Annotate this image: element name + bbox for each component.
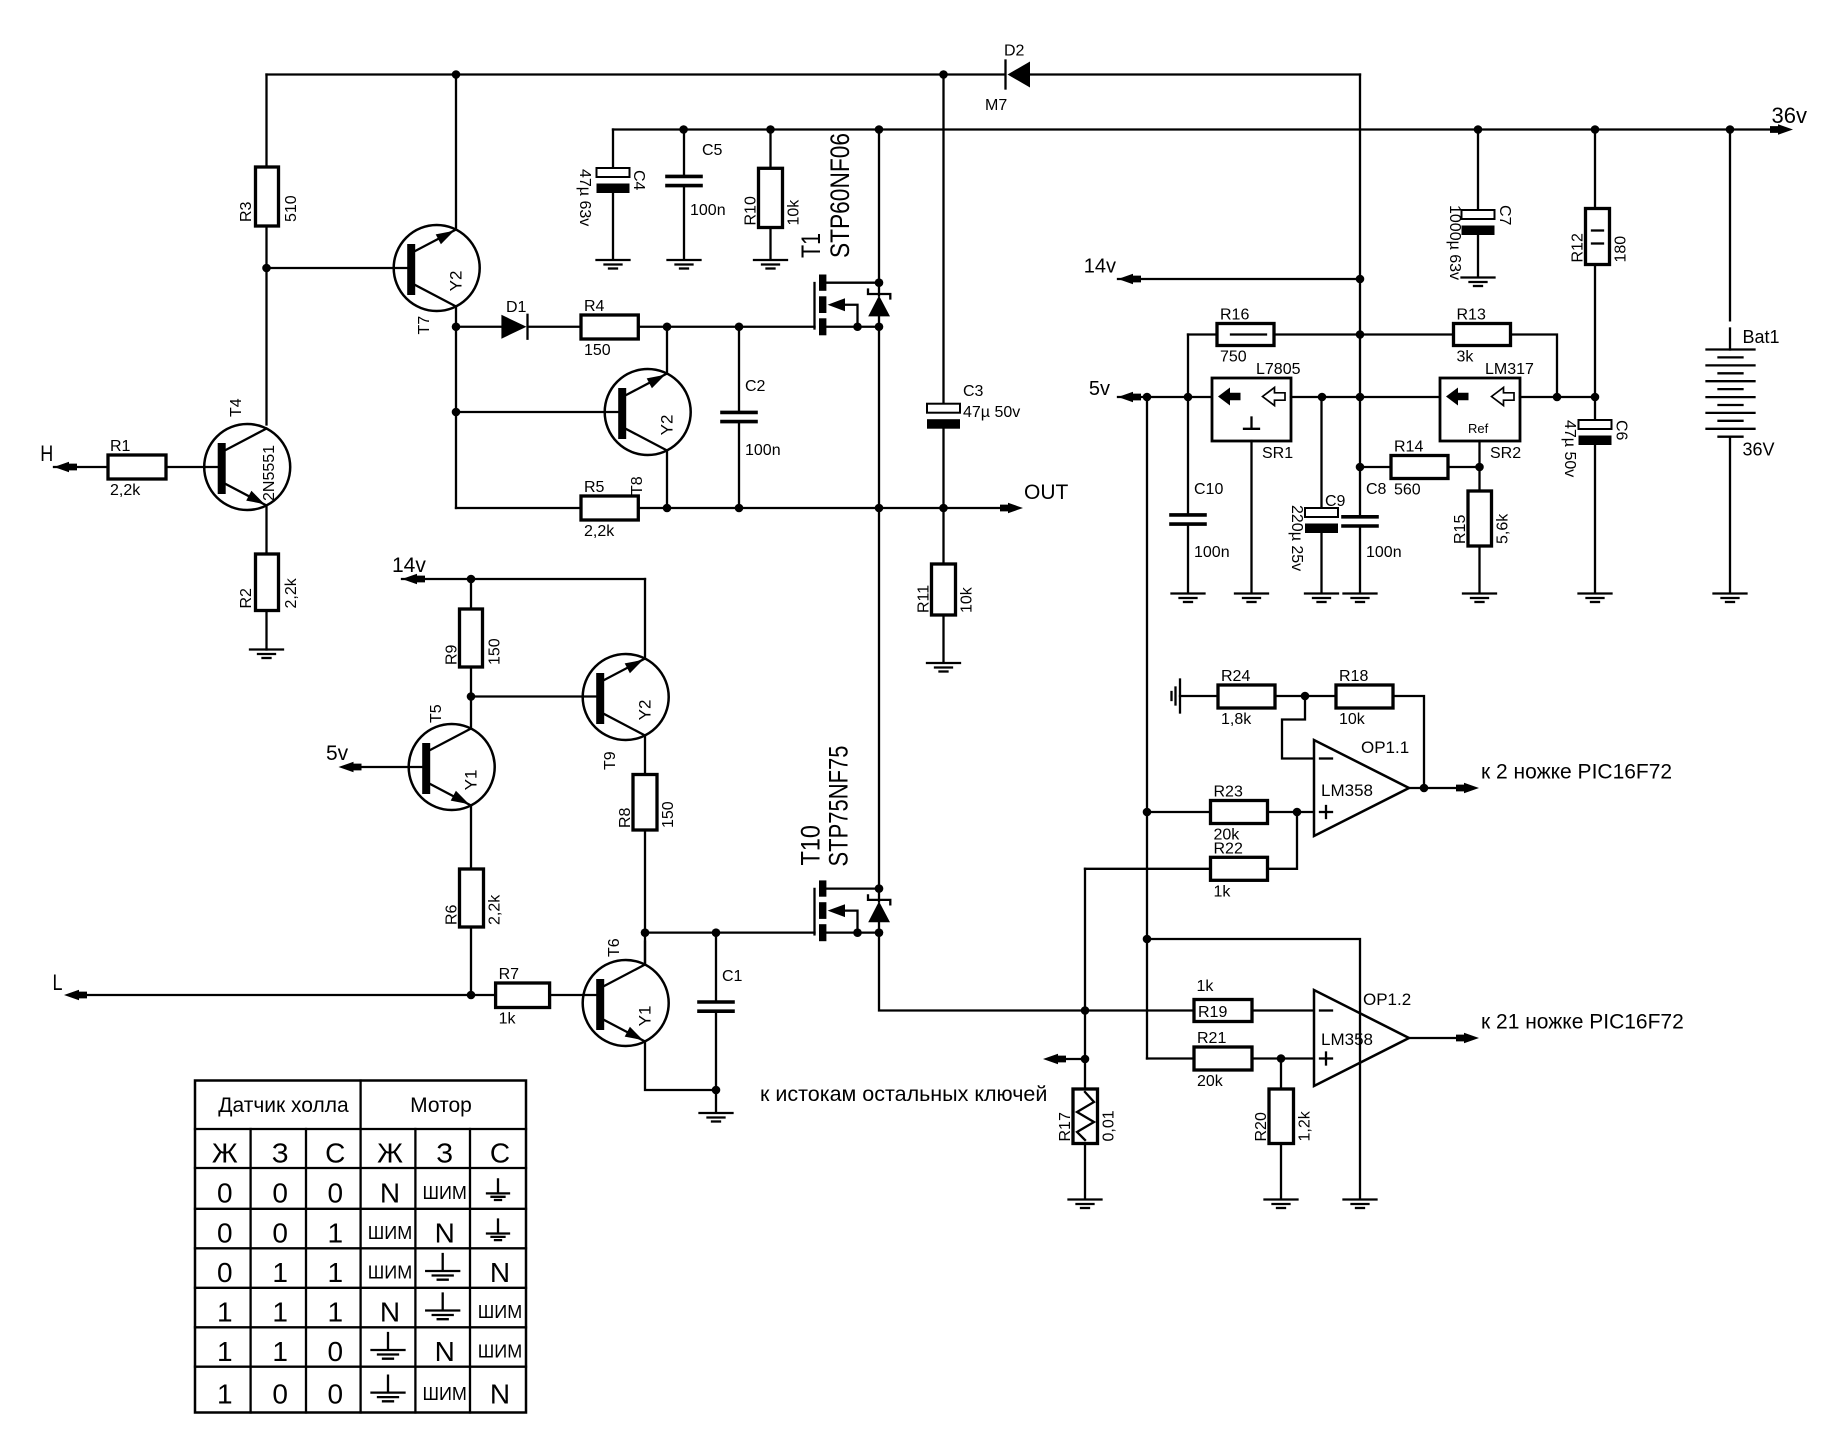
svg-text:T1: T1 [796,233,826,258]
svg-text:T5: T5 [428,704,445,723]
svg-text:220µ 25v: 220µ 25v [1288,505,1305,571]
svg-text:R13: R13 [1457,307,1486,324]
svg-text:1: 1 [217,1336,233,1367]
svg-text:Bat1: Bat1 [1743,327,1780,347]
svg-text:1,2k: 1,2k [1297,1110,1314,1141]
svg-text:L: L [53,970,63,995]
svg-text:N: N [490,1257,510,1288]
svg-text:100n: 100n [1194,544,1230,561]
svg-text:LM358: LM358 [1321,781,1373,800]
svg-text:3k: 3k [1457,349,1475,366]
svg-text:R16: R16 [1220,307,1249,324]
svg-text:R9: R9 [444,644,461,665]
svg-text:1: 1 [328,1218,344,1249]
svg-text:З: З [272,1138,289,1169]
svg-text:R22: R22 [1214,840,1243,857]
svg-text:1k: 1k [499,1011,517,1028]
svg-text:H: H [40,441,53,466]
svg-text:T9: T9 [602,751,619,770]
svg-text:1: 1 [328,1257,344,1288]
svg-text:ШИМ: ШИМ [368,1223,412,1243]
svg-text:0: 0 [328,1177,344,1208]
svg-text:SR2: SR2 [1490,445,1521,462]
svg-text:2,2k: 2,2k [110,482,141,499]
svg-text:R4: R4 [584,298,605,315]
svg-text:T6: T6 [606,938,623,957]
svg-text:5v: 5v [326,742,349,765]
svg-text:R15: R15 [1452,515,1469,544]
svg-text:C1: C1 [722,968,743,985]
svg-text:150: 150 [487,638,504,665]
svg-text:2N5551: 2N5551 [261,445,278,501]
svg-text:R17: R17 [1057,1112,1074,1141]
svg-text:T10: T10 [796,825,826,866]
svg-text:180: 180 [1613,236,1630,263]
svg-text:5,6k: 5,6k [1495,513,1512,544]
svg-text:LM358: LM358 [1321,1030,1373,1049]
svg-text:100n: 100n [1366,544,1402,561]
svg-text:510: 510 [283,195,300,222]
svg-text:1: 1 [272,1336,288,1367]
svg-text:С: С [490,1138,510,1169]
svg-text:0: 0 [217,1177,233,1208]
svg-text:T7: T7 [416,316,433,335]
svg-text:R11: R11 [916,585,933,613]
svg-text:0,01: 0,01 [1101,1110,1118,1141]
svg-text:0: 0 [272,1177,288,1208]
svg-text:C2: C2 [745,378,766,395]
svg-text:5v: 5v [1089,378,1110,400]
svg-text:L7805: L7805 [1256,361,1301,378]
svg-text:STP60NF06: STP60NF06 [825,133,855,258]
svg-text:36V: 36V [1743,440,1775,460]
svg-text:1000µ 63v: 1000µ 63v [1446,205,1463,280]
svg-text:R12: R12 [1570,233,1587,262]
svg-text:R24: R24 [1221,668,1250,685]
svg-text:Ref: Ref [1468,421,1489,436]
svg-text:750: 750 [1220,349,1247,366]
svg-text:OP1.2: OP1.2 [1363,990,1411,1009]
svg-text:Датчик холла: Датчик холла [218,1094,349,1117]
svg-text:M7: M7 [985,97,1007,114]
svg-text:N: N [435,1218,455,1249]
svg-text:1: 1 [272,1257,288,1288]
svg-text:ШИМ: ШИМ [478,1342,522,1362]
svg-text:D1: D1 [506,299,527,316]
svg-text:10k: 10k [959,586,976,613]
svg-text:R7: R7 [499,966,520,983]
svg-text:150: 150 [584,342,611,359]
svg-text:100n: 100n [745,442,781,459]
svg-text:14v: 14v [1084,256,1116,278]
svg-text:С: С [325,1138,345,1169]
svg-text:0: 0 [328,1379,344,1410]
svg-text:R10: R10 [743,196,760,225]
svg-text:N: N [380,1297,400,1328]
svg-text:SR1: SR1 [1262,445,1293,462]
svg-text:36v: 36v [1772,103,1807,128]
svg-text:C8: C8 [1366,481,1387,498]
svg-text:Ж: Ж [377,1138,403,1169]
svg-text:150: 150 [660,801,677,828]
svg-text:R19: R19 [1198,1004,1227,1021]
svg-text:47µ 50v: 47µ 50v [963,404,1020,421]
svg-text:T8: T8 [629,476,646,495]
svg-text:R6: R6 [444,904,461,925]
svg-text:C6: C6 [1613,420,1630,441]
svg-text:0: 0 [272,1218,288,1249]
svg-text:Y2: Y2 [636,700,655,721]
svg-text:Y2: Y2 [447,271,466,292]
svg-text:0: 0 [217,1218,233,1249]
svg-text:OP1.1: OP1.1 [1361,738,1409,757]
svg-text:Y2: Y2 [658,415,677,436]
svg-text:к 2 ножке PIC16F72: к 2 ножке PIC16F72 [1481,761,1672,784]
svg-text:N: N [435,1336,455,1367]
svg-text:1: 1 [328,1297,344,1328]
svg-text:20k: 20k [1197,1073,1224,1090]
svg-text:1: 1 [217,1297,233,1328]
svg-text:N: N [490,1379,510,1410]
svg-text:R23: R23 [1214,784,1243,801]
svg-text:10k: 10k [786,199,803,226]
svg-text:47µ 63v: 47µ 63v [576,169,593,226]
svg-text:1k: 1k [1197,978,1215,995]
svg-text:D2: D2 [1004,43,1025,60]
svg-text:R14: R14 [1394,439,1423,456]
svg-text:T4: T4 [228,398,245,417]
svg-text:560: 560 [1394,482,1421,499]
svg-text:C3: C3 [963,383,984,400]
svg-text:C4: C4 [630,170,647,191]
svg-text:STP75NF75: STP75NF75 [824,746,854,867]
svg-text:Мотор: Мотор [410,1094,472,1117]
svg-text:ШИМ: ШИМ [422,1384,466,1404]
svg-text:ШИМ: ШИМ [368,1263,412,1283]
svg-text:N: N [380,1177,400,1208]
svg-text:C9: C9 [1325,493,1346,510]
svg-text:0: 0 [328,1336,344,1367]
svg-text:Ж: Ж [212,1138,238,1169]
svg-text:LM317: LM317 [1485,361,1534,378]
svg-text:47µ 50v: 47µ 50v [1561,420,1578,477]
svg-text:R1: R1 [110,438,131,455]
svg-text:Y1: Y1 [636,1006,655,1027]
svg-text:R20: R20 [1253,1112,1270,1141]
svg-text:R5: R5 [584,479,605,496]
svg-text:C10: C10 [1194,481,1223,498]
svg-text:R2: R2 [238,588,255,609]
svg-text:1,8k: 1,8k [1221,711,1252,728]
svg-text:З: З [436,1138,453,1169]
svg-text:R3: R3 [238,201,255,222]
svg-text:2,2k: 2,2k [283,577,300,608]
svg-text:R18: R18 [1339,668,1368,685]
svg-text:0: 0 [272,1379,288,1410]
svg-text:2,2k: 2,2k [487,894,504,925]
svg-text:0: 0 [217,1257,233,1288]
svg-text:ШИМ: ШИМ [478,1302,522,1322]
svg-text:R21: R21 [1197,1030,1226,1047]
svg-text:1: 1 [217,1379,233,1410]
svg-text:ШИМ: ШИМ [422,1183,466,1203]
svg-text:R8: R8 [617,807,634,828]
svg-text:Y1: Y1 [462,770,481,791]
svg-text:к истокам остальных ключей: к истокам остальных ключей [760,1082,1047,1106]
svg-text:10k: 10k [1339,711,1366,728]
svg-text:14v: 14v [392,554,426,577]
svg-text:C7: C7 [1496,205,1513,226]
svg-text:1: 1 [272,1297,288,1328]
svg-text:C5: C5 [702,142,723,159]
svg-text:100n: 100n [690,202,726,219]
svg-text:OUT: OUT [1024,481,1069,504]
svg-text:1k: 1k [1214,883,1232,900]
svg-text:к 21 ножке PIC16F72: к 21 ножке PIC16F72 [1481,1011,1684,1034]
svg-text:2,2k: 2,2k [584,523,615,540]
